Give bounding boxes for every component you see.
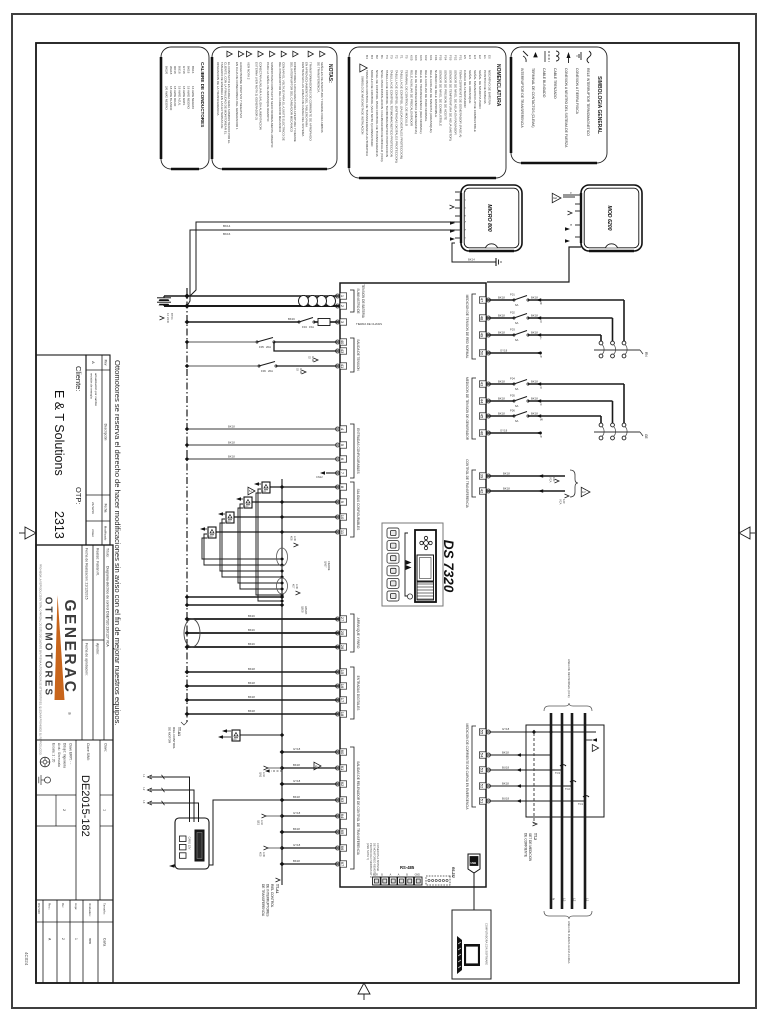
svg-text:67: 67	[340, 862, 345, 867]
svg-text:BK18: BK18	[293, 859, 300, 863]
svg-text:F01: F01	[510, 293, 515, 297]
svg-text:4C024: 4C024	[24, 952, 29, 966]
svg-text:J.Glez: J.Glez	[91, 529, 95, 538]
wire fuel output pin 27	[185, 614, 340, 621]
svg-text:BK18: BK18	[248, 681, 255, 685]
svg-text:CIERRE: CIERRE	[327, 561, 330, 571]
svg-text:TIERRA DE CHASIS: TIERRA DE CHASIS	[356, 322, 382, 326]
svg-text:E0: E0	[488, 55, 492, 59]
svg-text:TT-2: TT-2	[533, 833, 537, 840]
svg-text:52: 52	[480, 784, 485, 789]
svg-text:Clave:: Clave:	[104, 743, 108, 752]
svg-text:BK16: BK16	[288, 317, 295, 321]
legend symbols	[523, 51, 591, 63]
svg-text:27: 27	[340, 617, 345, 622]
wire input pin 7	[316, 471, 340, 479]
wire battery positive pin 2	[164, 303, 340, 308]
wire digital input pin 17	[185, 695, 340, 702]
svg-text:2313: 2313	[52, 511, 66, 539]
svg-text:BT01: BT01	[170, 313, 174, 320]
svg-text:HACER BORNE POSITIVO Y NEGATIV: HACER BORNE POSITIVO Y NEGATIVO	[239, 62, 243, 119]
svg-text:10: 10	[340, 515, 345, 520]
svg-text:®: ®	[67, 712, 72, 715]
MICRO 800 input arrows	[450, 205, 456, 241]
svg-text:BK18: BK18	[531, 379, 538, 383]
svg-text:T: T	[540, 337, 542, 341]
svg-text:S: S	[540, 320, 542, 324]
MICRO 800 pins	[455, 191, 467, 239]
connector USB	[468, 854, 480, 873]
terminal group ovals	[277, 548, 288, 594]
group label transfer control	[465, 459, 476, 508]
svg-text:17: 17	[340, 698, 345, 703]
svg-text:GY18: GY18	[293, 843, 301, 847]
svg-text:PROHIBIDA LA REPRODUCCION TOTA: PROHIBIDA LA REPRODUCCION TOTAL O PARCIA…	[39, 564, 42, 756]
svg-text:T2: T2	[395, 55, 399, 59]
svg-text:L1: L1	[586, 898, 590, 902]
svg-text:Descripción: Descripción	[103, 424, 107, 441]
group label current measurement	[465, 724, 476, 811]
svg-text:CONTROL DE TRANSFERENCIA: CONTROL DE TRANSFERENCIA	[465, 459, 469, 508]
svg-text:BK18: BK18	[293, 827, 300, 831]
svg-text:LINEA DE RED NORMAL (CFE): LINEA DE RED NORMAL (CFE)	[567, 659, 571, 698]
svg-text:40: 40	[340, 340, 345, 345]
CT box neutral link arrow	[585, 738, 599, 751]
svg-text:TERMINAL DE CONTACTOS (CLEMA): TERMINAL DE CONTACTOS (CLEMA)	[531, 68, 535, 127]
group label configurable outputs	[350, 482, 360, 537]
ground chassis near charger	[468, 258, 501, 267]
svg-text:K02: K02	[424, 55, 428, 61]
svg-text:15: 15	[340, 670, 345, 675]
svg-text:60: 60	[340, 750, 345, 755]
svg-text:QE1: QE1	[257, 820, 260, 826]
svg-text:MODULO DE CONTROL (VER NOTA 4): MODULO DE CONTROL (VER NOTA 4) CONMUTADO	[370, 70, 374, 147]
svg-text:GY18: GY18	[500, 428, 508, 432]
svg-text:16: 16	[340, 684, 345, 689]
svg-text:SUMINISTRO DE: SUMINISTRO DE	[356, 288, 360, 313]
svg-text:6A: 6A	[515, 321, 519, 325]
svg-text:MEDICION DE CORRIENTE DE CARGA: MEDICION DE CORRIENTE DE CARGA EN EMERGE…	[465, 724, 469, 811]
group label digital inputs	[350, 667, 360, 719]
wire genset neutral pin 46	[486, 428, 542, 438]
svg-text:A: A	[398, 874, 400, 877]
wire digital input pin 16	[185, 681, 340, 688]
relay contact wiring loom	[202, 489, 284, 603]
svg-text:20A: 20A	[266, 345, 271, 349]
svg-text:18: 18	[340, 712, 345, 717]
svg-text:BK18: BK18	[498, 379, 505, 383]
svg-text:16 AWG NEGRO: 16 AWG NEGRO	[191, 86, 195, 110]
terminal arrow charger output	[169, 864, 175, 868]
wire CT common pin 55	[486, 727, 596, 734]
reference arrows transfer outputs	[257, 766, 282, 858]
svg-text:6A: 6A	[515, 338, 519, 342]
label motor control rail	[168, 722, 187, 749]
svg-text:RS-485: RS-485	[400, 865, 415, 870]
svg-text:Título:: Título:	[105, 548, 109, 557]
svg-text:MEDICION DE TENSION DE RED NOR: MEDICION DE TENSION DE RED NORMAL	[465, 295, 469, 359]
svg-text:DE CORRIENTE: DE CORRIENTE	[524, 833, 528, 857]
wire digital input pin 15	[185, 667, 340, 674]
svg-text:18 AWG ROJO: 18 AWG ROJO	[173, 86, 177, 107]
svg-text:BK18: BK18	[502, 781, 509, 785]
svg-text:WH18: WH18	[169, 66, 173, 75]
reference notes at transfer rail	[290, 536, 330, 615]
svg-text:51: 51	[480, 799, 485, 804]
svg-text:F06: F06	[510, 409, 515, 413]
wire aux return pin 43	[274, 342, 340, 351]
svg-text:CENSAR EL VOLTAJE PARA EL AJUS: CENSAR EL VOLTAJE PARA EL AJUSTE ELECTRI…	[282, 62, 286, 141]
svg-text:RIEL CONTROL: RIEL CONTROL	[270, 884, 274, 908]
svg-text:BK18: BK18	[293, 763, 300, 767]
svg-text:OTTOMOTORES: OTTOMOTORES	[43, 597, 54, 698]
svg-text:N: N	[540, 435, 542, 439]
svg-text:BU18: BU18	[178, 66, 182, 74]
current transformer TC3 pin 54	[486, 750, 551, 756]
svg-text:GY18: GY18	[293, 747, 301, 751]
title block sheet grid	[36, 900, 113, 983]
svg-text:TC1: TC1	[578, 802, 583, 806]
svg-text:6A: 6A	[515, 387, 519, 391]
svg-text:65: 65	[340, 830, 345, 835]
svg-text:Clave SIMI:: Clave SIMI:	[86, 743, 90, 761]
svg-text:CONEXION A NEUTRO DEL SISTEMA: CONEXION A NEUTRO DEL SISTEMA DE FUERZA	[564, 68, 568, 148]
svg-text:Tamaño:: Tamaño:	[103, 903, 107, 915]
svg-text:42: 42	[480, 489, 485, 494]
svg-text:GY18: GY18	[182, 66, 186, 74]
svg-text:Acot.: Sin escala: Acot.: Sin escala	[57, 743, 61, 767]
wire digital input pin 18	[185, 709, 340, 716]
svg-text:K03: K03	[419, 55, 423, 61]
svg-text:BK18: BK18	[531, 330, 538, 334]
group label battery supply	[350, 284, 365, 319]
svg-text:BU18: BU18	[502, 796, 509, 800]
svg-text:V: V	[540, 403, 542, 407]
svg-text:BK18: BK18	[502, 750, 509, 754]
laptop computer	[452, 910, 491, 979]
power conductor L2	[572, 713, 577, 909]
svg-text:47: 47	[480, 298, 485, 303]
wire stop output pin 26	[185, 642, 340, 649]
wire charger DC feed	[187, 222, 496, 306]
svg-text:SIMBOLOGIA GENERAL: SIMBOLOGIA GENERAL	[596, 76, 602, 134]
svg-text:45: 45	[480, 414, 485, 419]
wire aux output pin 41	[185, 362, 340, 374]
svg-text:CLIENTE, CON LA FINALIDAD DE M: CLIENTE, CON LA FINALIDAD DE MONITOREAR …	[224, 62, 228, 135]
breaker GE genset thermomagnetic	[594, 423, 648, 440]
svg-text:BK18: BK18	[498, 330, 505, 334]
svg-text:53: 53	[480, 768, 485, 773]
svg-text:SUMINISTRAR CONTACTO SECO NORM: SUMINISTRAR CONTACTO SECO NORMALMENTE AB…	[270, 62, 274, 148]
svg-text:F03: F03	[449, 55, 453, 61]
svg-text:NOMENCLATURA: NOMENCLATURA	[495, 64, 501, 107]
sheet code text	[24, 952, 29, 966]
group label aux voltage outputs	[350, 338, 360, 372]
svg-text:BK18: BK18	[228, 440, 235, 444]
group label fuel-start outputs	[350, 614, 360, 652]
svg-text:DE TRANSFERENCIA.: DE TRANSFERENCIA.	[316, 62, 320, 93]
svg-text:50: 50	[480, 351, 485, 356]
svg-text:T0: T0	[404, 55, 408, 59]
svg-text:RELE AUXILIAR DE PARO NORMAL: RELE AUXILIAR DE PARO NORMAL	[424, 70, 428, 122]
legend box CALIBRE DE CONDUCTORES	[161, 47, 209, 169]
svg-text:F05: F05	[439, 55, 443, 61]
current transformer TC2 pin 53	[486, 765, 566, 775]
wire relay output pin 62	[280, 779, 340, 786]
svg-text:GY18: GY18	[293, 779, 301, 783]
connector RS-485	[398, 865, 422, 885]
svg-text:K07: K07	[292, 584, 295, 589]
svg-text:T1: T1	[400, 55, 404, 59]
governor input arrows	[565, 211, 572, 243]
svg-text:BK16: BK16	[248, 642, 255, 646]
svg-text:26: 26	[340, 645, 345, 650]
connector config port	[373, 874, 397, 886]
svg-text:POSITIVO DE BATERIA: POSITIVO DE BATERIA	[483, 70, 487, 105]
relay K05 preheat	[218, 729, 321, 772]
svg-text:BK18: BK18	[498, 295, 505, 299]
svg-text:BK18: BK18	[531, 411, 538, 415]
svg-text:B2: B2	[375, 55, 379, 59]
warning triangle relay outputs	[248, 487, 255, 495]
svg-text:RELE INTERRUPTOR TERMOMAGNETIC: RELE INTERRUPTOR TERMOMAGNETICO	[586, 68, 590, 136]
svg-text:BK16: BK16	[191, 66, 195, 74]
battery charger module	[175, 818, 209, 869]
svg-text:49: 49	[480, 333, 485, 338]
label transfer rail	[261, 878, 280, 917]
svg-text:DS7320: DS7320	[37, 903, 41, 914]
svg-text:NIVEL PARA INSTALACION / CALIB: NIVEL PARA INSTALACION / CALIBRACION DE …	[380, 70, 384, 162]
svg-text:6A: 6A	[515, 419, 519, 423]
svg-text:DE2015-182: DE2015-182	[79, 775, 91, 837]
svg-text:BK18: BK18	[531, 396, 538, 400]
svg-text:BK18: BK18	[248, 709, 255, 713]
transfer brace and note	[549, 470, 590, 505]
svg-text:CONEXION A SISTEMA: CONEXION A SISTEMA	[376, 843, 380, 871]
wire transfer signal pin 42	[486, 486, 565, 492]
current transformer pin 51	[486, 796, 589, 806]
svg-text:18 AWG AZUL: 18 AWG AZUL	[178, 86, 182, 106]
svg-text:OTP:: OTP:	[74, 487, 83, 505]
group label chassis earth	[356, 322, 382, 326]
svg-text:Rev.:: Rev.:	[48, 903, 52, 910]
svg-text:GND: GND	[311, 356, 314, 362]
svg-text:12 VCD: 12 VCD	[166, 313, 170, 323]
svg-text:F01: F01	[458, 55, 462, 61]
svg-text:NOTAS:: NOTAS:	[327, 64, 333, 83]
wire to battery charger DSE855	[204, 800, 282, 865]
controller front panel	[382, 523, 443, 606]
wire battery negative pin 1	[164, 293, 340, 298]
svg-text:RELE DE TRANSFERENCIA (EMERGEN: RELE DE TRANSFERENCIA (EMERGENCIA)	[414, 70, 418, 134]
svg-text:18 AWG GRIS: 18 AWG GRIS	[182, 86, 186, 105]
wire relay output pin 63	[280, 795, 340, 802]
svg-text:USB: USB	[471, 861, 477, 865]
svg-text:41: 41	[340, 364, 345, 369]
client box	[36, 355, 86, 545]
terminal rail TT-A1 motor control	[186, 288, 188, 722]
svg-text:1: 1	[74, 938, 78, 940]
brace load side	[544, 659, 592, 711]
svg-text:54: 54	[480, 753, 485, 758]
svg-text:BK16: BK16	[223, 232, 231, 236]
svg-text:SALIDA DE TENSION: SALIDA DE TENSION	[356, 339, 360, 371]
label DS 7320	[441, 540, 456, 593]
disclaimer text	[113, 360, 122, 726]
svg-text:ARRANQUE Y PARO: ARRANQUE Y PARO	[356, 618, 360, 649]
svg-text:CONECTORES AUXILIARES PARA APE: CONECTORES AUXILIARES PARA APERTURA Y CI…	[293, 62, 297, 142]
svg-text:W: W	[540, 418, 543, 422]
power conductor L1	[585, 713, 590, 909]
svg-text:F06: F06	[261, 369, 266, 373]
cable loop marker	[184, 619, 200, 647]
svg-text:NUMERO DE RELE DISPONIBLE: NUMERO DE RELE DISPONIBLE	[434, 70, 438, 117]
svg-text:F05: F05	[510, 394, 515, 398]
battery BT01 12V	[157, 296, 174, 323]
svg-text:66: 66	[340, 846, 345, 851]
svg-text:RS-232: RS-232	[451, 867, 455, 878]
svg-text:TC2: TC2	[565, 787, 570, 791]
svg-text:APERT.: APERT.	[304, 606, 307, 615]
svg-text:BK2/0: BK2/0	[164, 66, 168, 75]
svg-text:Cliente:: Cliente:	[74, 366, 83, 391]
svg-text:F05: F05	[259, 345, 264, 349]
connector RS-232	[426, 867, 455, 885]
svg-text:MOD 6200: MOD 6200	[606, 205, 612, 230]
relay K02	[236, 497, 340, 508]
title block key section	[36, 740, 113, 900]
svg-text:Fecha de aprobación:: Fecha de aprobación:	[85, 643, 89, 676]
svg-text:E2: E2	[478, 55, 482, 59]
svg-text:64: 64	[340, 814, 345, 819]
svg-text:F04: F04	[510, 377, 515, 381]
wire mains sense L1 pin 47	[486, 293, 624, 341]
svg-text:55: 55	[480, 730, 485, 735]
svg-text:BK16: BK16	[248, 628, 255, 632]
svg-text:BK18: BK18	[248, 667, 255, 671]
wire relay output pin 60	[280, 747, 340, 754]
group label mains voltage sensing	[465, 294, 476, 359]
power conductor L3	[562, 713, 567, 909]
svg-text:B: B	[569, 224, 573, 226]
svg-text:F02: F02	[453, 55, 457, 61]
svg-text:GND: GND	[415, 874, 421, 877]
wire relay output pin 65	[280, 827, 340, 834]
svg-text:Carta: Carta	[103, 938, 107, 946]
wire input pin 5	[185, 440, 340, 447]
svg-text:TABLILLA DE CONTROL (ENTRADAS: TABLILLA DE CONTROL (ENTRADAS DIGITALES …	[395, 70, 399, 163]
wire transfer signal pin 39	[486, 471, 565, 477]
wire genset sense L1 pin 43	[486, 377, 624, 423]
logo GENERAC OTTOMOTORES	[43, 595, 79, 715]
relay K04	[200, 527, 340, 538]
svg-text:CALIBRE DE CONDUCTORES: CALIBRE DE CONDUCTORES	[200, 62, 205, 127]
svg-text:BK18: BK18	[228, 424, 235, 428]
CT set dashed common and label	[524, 732, 551, 862]
svg-text:SET DE MEDICION: SET DE MEDICION	[528, 833, 532, 862]
svg-text:R: R	[540, 302, 543, 306]
svg-text:TABLERO DE ENERGIA EN LAS EXTE: TABLERO DE ENERGIA EN LAS EXTERNAS DE	[220, 62, 224, 128]
svg-text:Aprobó:: Aprobó:	[96, 643, 100, 655]
note text remote monitoring	[366, 843, 380, 878]
svg-text:1: 1	[103, 809, 107, 811]
svg-text:F03: F03	[510, 328, 515, 332]
svg-text:revisión de energía: revisión de energía	[90, 373, 94, 399]
svg-text:TRANSFORMADORES DE CORRIENTE D: TRANSFORMADORES DE CORRIENTE DE APROPIAD…	[308, 62, 312, 141]
svg-text:QN07: QN07	[324, 561, 327, 568]
svg-text:BK18: BK18	[498, 396, 505, 400]
svg-text:GY18: GY18	[293, 811, 301, 815]
wire mains sense L2 pin 48	[486, 311, 613, 341]
svg-text:B3: B3	[370, 55, 374, 59]
svg-text:CENTRAR EN LAS LINEAS DE CARGA: CENTRAR EN LAS LINEAS DE CARGA DEL SISTE…	[301, 62, 305, 136]
svg-text:TOMA CORRIENTE DE GENERADOR (F: TOMA CORRIENTE DE GENERADOR (FASE A)	[458, 70, 462, 137]
svg-text:6A: 6A	[515, 303, 519, 307]
svg-text:N: N	[552, 898, 556, 900]
svg-text:TABLILLA DE CONTROL TERMOMAGNE: TABLILLA DE CONTROL TERMOMAGNETICO PROTE…	[385, 70, 389, 157]
svg-text:F02: F02	[510, 311, 515, 315]
legal small print	[39, 564, 42, 756]
svg-text:DEL INTERRUPTOR DEL CARGADOR M: DEL INTERRUPTOR DEL CARGADOR MECANICO	[289, 62, 293, 133]
svg-text:L1: L1	[142, 775, 145, 778]
svg-text:NIVEL DE CONTROL PARA CONTROL: NIVEL DE CONTROL PARA CONTROL DE TRANSFE…	[375, 70, 379, 158]
svg-text:U: U	[540, 386, 542, 390]
group label genset voltage sensing	[465, 377, 476, 441]
wire input pin 6	[185, 454, 340, 461]
svg-text:E1: E1	[483, 55, 487, 59]
svg-text:GND: GND	[299, 368, 302, 374]
controller DS7320 outline	[340, 283, 486, 887]
wire relay output pin 61	[280, 763, 340, 770]
svg-text:ENTRADAS DIGITALES: ENTRADAS DIGITALES	[356, 676, 360, 711]
cable marker battery pair	[299, 295, 336, 306]
svg-text:B1: B1	[380, 55, 384, 59]
svg-text:EN CAJA DE CONEXIONES DEL GENE: EN CAJA DE CONEXIONES DEL GENERADOR 1	[235, 62, 239, 130]
svg-text:mm: mm	[88, 938, 92, 944]
svg-text:A 10: A 10	[260, 820, 263, 826]
svg-text:Realizó: Fabián R.: Realizó: Fabián R.	[96, 548, 100, 576]
svg-text:RELE AUXILIAR DE PRECALENTADOR: RELE AUXILIAR DE PRECALENTADOR	[409, 70, 413, 127]
svg-text:Fecha de Realización: 21/12/20: Fecha de Realización: 21/12/2015	[85, 548, 89, 600]
svg-text:ENTRADAS CONFIGURABLES: ENTRADAS CONFIGURABLES	[356, 428, 360, 474]
wire USB to laptop	[473, 873, 475, 910]
svg-text:EN APROVECHAMIENTO DEL TABLERO: EN APROVECHAMIENTO DEL TABLERO PARA	[305, 62, 309, 127]
wire genset sense L2 pin 44	[486, 394, 613, 423]
svg-text:CONECTAR AUXILIAR A SALIDA ALI: CONECTAR AUXILIAR A SALIDA ALIMENTACION	[258, 62, 262, 130]
svg-text:DE INTERRUPTORES: DE INTERRUPTORES	[266, 884, 270, 917]
svg-text:L3: L3	[563, 898, 567, 902]
wire emergency stop pin 3	[185, 317, 340, 329]
svg-text:B: B	[406, 874, 408, 877]
group label flexible inputs	[350, 424, 360, 478]
svg-text:SALIDAS CONFIGURABLES: SALIDAS CONFIGURABLES	[356, 489, 360, 531]
relay K03	[218, 512, 340, 523]
svg-text:SIMBOLO DE AVISO/NOTA DE INSTA: SIMBOLO DE AVISO/NOTA DE INSTALACION	[361, 76, 365, 134]
svg-text:A 10: A 10	[262, 772, 265, 778]
svg-text:61: 61	[340, 766, 345, 771]
svg-text:EL CONTACTO ES CARGA SERA SUMI: EL CONTACTO ES CARGA SERA SUMINISTRADO P…	[227, 62, 231, 144]
svg-text:T4: T4	[385, 55, 389, 59]
svg-text:BK18: BK18	[531, 295, 538, 299]
svg-text:63: 63	[340, 798, 345, 803]
wire start output pin 25	[185, 628, 340, 635]
svg-text:CABLE BLINDADO: CABLE BLINDADO	[542, 68, 546, 98]
svg-text:K05: K05	[259, 852, 262, 857]
svg-text:De:: De:	[61, 903, 65, 908]
svg-text:18 AWG BLANCO: 18 AWG BLANCO	[169, 86, 173, 111]
breaker RN mains thermomagnetic	[594, 341, 648, 358]
notes box NOTAS	[212, 47, 337, 169]
